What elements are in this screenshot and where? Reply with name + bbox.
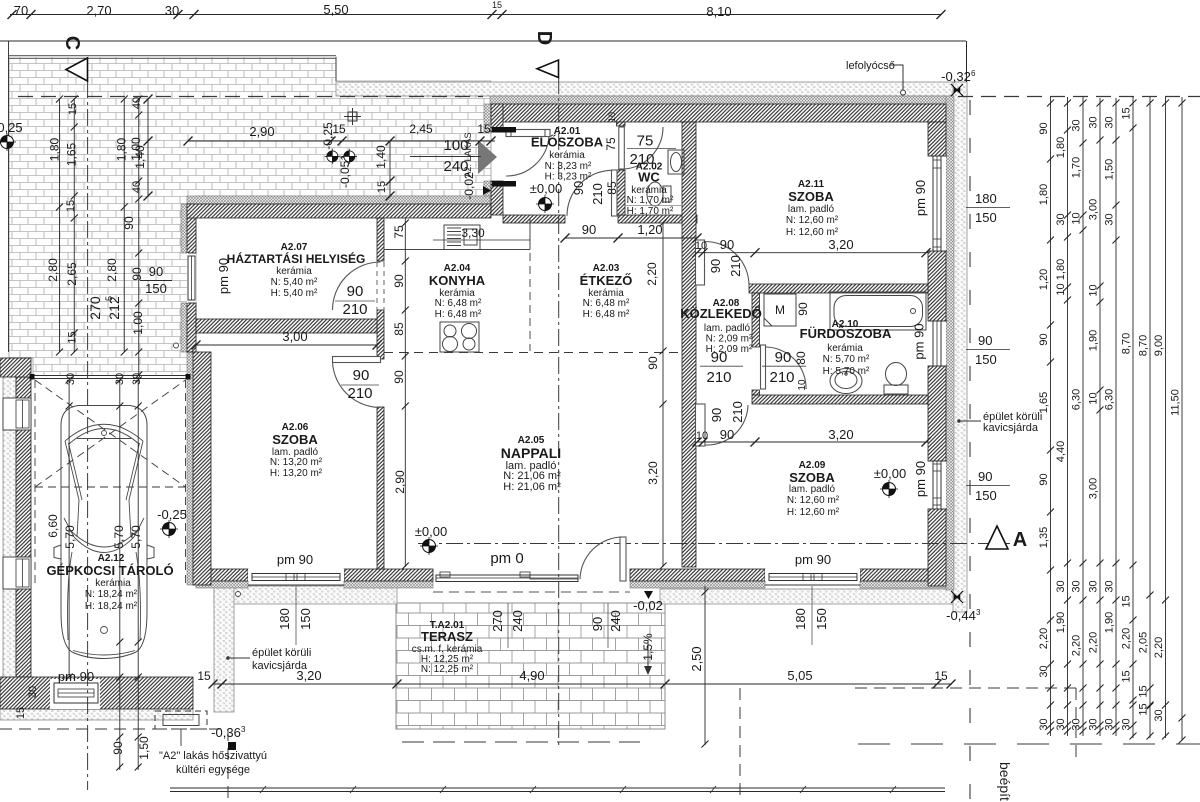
svg-text:30: 30 <box>1104 718 1116 730</box>
svg-text:lam. padló: lam. padló <box>789 484 836 495</box>
vertical 1,40 line right <box>389 141 391 196</box>
insulation hazt top <box>187 196 490 204</box>
svg-text:30: 30 <box>1153 709 1165 721</box>
insulation south c <box>630 581 765 588</box>
svg-text:1,65: 1,65 <box>65 142 79 166</box>
gravel east band <box>953 82 967 612</box>
car body outline <box>61 406 147 659</box>
bath washbasin <box>830 369 862 394</box>
wall east: bottom block <box>928 509 946 586</box>
svg-text:1,50: 1,50 <box>1104 159 1116 180</box>
svg-text:N: 12,60 m²: N: 12,60 m² <box>786 215 839 226</box>
wc door leaf <box>619 127 625 169</box>
svg-text:N: 12,60 m²: N: 12,60 m² <box>787 495 840 506</box>
car mirrors <box>54 545 154 559</box>
svg-text:1,00: 1,00 <box>129 137 143 161</box>
terrace door arc <box>580 537 623 579</box>
terrace bottom plot dashes <box>402 741 640 743</box>
svg-text:150: 150 <box>298 608 313 630</box>
wall garage west <box>16 377 31 677</box>
svg-text:30: 30 <box>1088 580 1100 592</box>
svg-text:1,40: 1,40 <box>374 145 388 169</box>
svg-text:4,90: 4,90 <box>519 668 544 683</box>
insulation south d <box>860 581 946 588</box>
svg-text:30: 30 <box>1071 718 1083 730</box>
svg-text:90: 90 <box>392 370 406 384</box>
svg-text:H: 12,60 m²: H: 12,60 m² <box>787 507 840 518</box>
car a pillars <box>64 518 144 537</box>
svg-text:pm 90: pm 90 <box>216 258 231 294</box>
room A2.10 furdoszoba labels <box>800 319 892 377</box>
svg-text:H: 6,48 m²: H: 6,48 m² <box>435 309 482 320</box>
kitchen counter <box>384 218 530 250</box>
svg-text:2,65: 2,65 <box>65 262 79 286</box>
svg-text:1,65: 1,65 <box>1038 392 1050 413</box>
window szoba9 east <box>928 461 947 509</box>
szoba9 3,20 dim <box>697 441 928 443</box>
svg-text:H: 18,24 m²: H: 18,24 m² <box>85 601 138 612</box>
svg-text:pm 90: pm 90 <box>277 552 313 567</box>
svg-text:2,50: 2,50 <box>689 646 704 671</box>
wall hazt south (szoba6 north) <box>196 319 377 333</box>
svg-text:270: 270 <box>87 296 103 320</box>
svg-text:2,20: 2,20 <box>1038 628 1050 649</box>
svg-text:75: 75 <box>637 133 654 150</box>
svg-text:15: 15 <box>376 181 388 193</box>
svg-text:90: 90 <box>775 349 792 366</box>
svg-text:1,80: 1,80 <box>48 137 62 161</box>
szoba6 door arc <box>333 363 381 408</box>
wc door arc <box>624 127 663 169</box>
svg-text:3,20: 3,20 <box>828 237 853 252</box>
section line C <box>87 81 89 790</box>
svg-text:4,40: 4,40 <box>1055 441 1067 462</box>
svg-text:±0,00: ±0,00 <box>530 181 562 196</box>
svg-text:A2. LAKÁS: A2. LAKÁS <box>463 132 473 177</box>
furdo door arc <box>766 347 807 389</box>
top dimension line <box>10 14 941 16</box>
wall konyha west (hazt east) upper <box>377 218 384 261</box>
svg-text:0,25: 0,25 <box>0 120 23 135</box>
svg-text:D: D <box>533 31 555 45</box>
room A2.07 haztartasi labels <box>227 242 366 299</box>
svg-text:30: 30 <box>27 686 39 698</box>
room A2.08 kozlekedo labels <box>680 298 762 355</box>
svg-text:2,05: 2,05 <box>1138 632 1150 653</box>
konyha counter dashed edge <box>529 253 531 351</box>
room A2.06 szoba labels <box>270 422 323 479</box>
svg-text:90: 90 <box>711 349 728 366</box>
insulation eloszoba west upper <box>484 104 491 132</box>
svg-text:90: 90 <box>149 264 163 279</box>
svg-text:30: 30 <box>1104 213 1116 225</box>
hazt door leaf dashed <box>377 262 384 310</box>
level -0,44 bottom right <box>951 591 963 603</box>
svg-text:2,45: 2,45 <box>409 122 433 136</box>
svg-text:85: 85 <box>605 181 619 195</box>
szoba6 window 180/150 <box>295 586 297 645</box>
svg-text:kerámia: kerámia <box>276 266 312 277</box>
L9 labels <box>1170 389 1182 416</box>
svg-text:1,80: 1,80 <box>1038 184 1050 205</box>
svg-text:30: 30 <box>1104 116 1116 128</box>
svg-text:A: A <box>1013 529 1027 551</box>
svg-text:pm 90: pm 90 <box>795 552 831 567</box>
svg-text:10: 10 <box>797 379 808 391</box>
svg-text:H: 13,20 m²: H: 13,20 m² <box>270 468 323 479</box>
gravel garage south strip <box>0 709 193 720</box>
wall east: between window1 and bath window <box>928 251 946 321</box>
wc toilet <box>647 182 663 206</box>
terrace door leaf <box>620 537 626 581</box>
right plot boundary vertical (short solid) <box>966 41 968 82</box>
svg-text:80: 80 <box>794 351 808 365</box>
szoba11 door arc <box>705 242 749 286</box>
svg-text:±0,00: ±0,00 <box>415 524 447 539</box>
svg-text:270: 270 <box>490 610 505 632</box>
gravel north band <box>336 82 967 96</box>
wall hazt+konyha top <box>187 204 491 218</box>
right chain ticks <box>1047 100 1186 744</box>
svg-text:210: 210 <box>706 369 731 386</box>
window hazt west <box>188 253 196 303</box>
svg-text:90: 90 <box>122 216 136 230</box>
svg-text:90: 90 <box>978 333 992 348</box>
etkezo-nappali vertical chain x663 <box>662 223 664 567</box>
wall hazt west upper <box>187 204 196 253</box>
svg-text:2,80: 2,80 <box>46 258 60 282</box>
eloszoba south door arc <box>567 170 612 216</box>
svg-text:2,70: 2,70 <box>86 3 111 18</box>
svg-text:-0,02: -0,02 <box>633 598 663 613</box>
svg-text:lam. padló: lam. padló <box>788 204 835 215</box>
window szoba9 south <box>765 574 860 586</box>
svg-text:3: 3 <box>241 725 246 734</box>
svg-text:150: 150 <box>814 608 829 630</box>
szoba11 3,20 dim <box>697 252 928 254</box>
svg-text:N: 5,70 m²: N: 5,70 m² <box>823 354 870 365</box>
svg-text:-0,25: -0,25 <box>157 507 187 522</box>
svg-text:-0,36: -0,36 <box>211 725 241 740</box>
svg-text:90: 90 <box>347 283 364 300</box>
svg-text:2,90: 2,90 <box>249 124 274 139</box>
wall south block a <box>196 569 248 581</box>
szoba9 window 180/150 <box>811 586 813 645</box>
svg-text:8,70: 8,70 <box>1138 335 1150 356</box>
bathtub <box>830 292 926 330</box>
svg-text:H: 21,06 m²: H: 21,06 m² <box>503 481 561 493</box>
svg-text:180: 180 <box>793 608 808 630</box>
insulation east <box>946 96 954 590</box>
car roof sides <box>77 500 131 537</box>
wall eloszoba west upper <box>491 104 503 132</box>
window furdo east <box>928 321 947 366</box>
szoba9 door arc <box>705 405 748 445</box>
gravel south-west L band vertical <box>214 586 234 712</box>
szoba11 door leaf <box>696 240 705 285</box>
wall garage south <box>0 677 193 709</box>
svg-text:2,90: 2,90 <box>393 470 407 494</box>
svg-text:TERASZ: TERASZ <box>421 629 473 644</box>
L3 labels <box>1071 119 1083 730</box>
room A2.04 konyha labels <box>429 263 486 320</box>
svg-text:90: 90 <box>1038 473 1050 485</box>
konyha-szoba6 vertical chain x405 <box>404 218 406 567</box>
wall south block b <box>344 569 433 581</box>
svg-text:5,70: 5,70 <box>129 525 143 549</box>
svg-text:kavicsjárda: kavicsjárda <box>983 422 1039 434</box>
sliding glass nappali south <box>436 572 578 582</box>
svg-text:6: 6 <box>971 69 976 78</box>
wall garage east / szoba6 west <box>193 352 211 585</box>
svg-text:N: 6,48 m²: N: 6,48 m² <box>435 298 482 309</box>
svg-text:lam. padló: lam. padló <box>704 323 751 334</box>
marker D triangle <box>537 60 559 78</box>
eaves dashed right of building <box>958 96 1200 98</box>
bath toilet <box>884 385 908 394</box>
svg-text:6,60: 6,60 <box>46 514 60 538</box>
svg-text:210: 210 <box>730 401 745 423</box>
svg-text:3,30: 3,30 <box>461 226 485 240</box>
svg-text:90: 90 <box>571 181 586 195</box>
window garage south <box>54 683 98 703</box>
konyha/nappali dashed separator <box>384 352 679 354</box>
room interiors to repaint white over any overlap <box>50 156 946 709</box>
svg-text:150: 150 <box>975 352 997 367</box>
svg-text:kültéri egysége: kültéri egysége <box>176 764 250 776</box>
svg-text:épület körüli: épület körüli <box>252 647 311 659</box>
insulation south a <box>196 581 248 588</box>
second horizontal line <box>0 40 966 42</box>
svg-text:kerámia: kerámia <box>827 343 863 354</box>
svg-text:N: 5,40 m²: N: 5,40 m² <box>271 277 318 288</box>
svg-text:210: 210 <box>347 385 372 402</box>
svg-text:90: 90 <box>111 741 125 755</box>
svg-text:40: 40 <box>131 97 143 109</box>
wall east: top block <box>928 122 946 156</box>
svg-text:8,70: 8,70 <box>1121 333 1133 354</box>
entrance arrow triangle <box>478 140 497 174</box>
svg-text:GÉPKOCSI TÁROLÓ: GÉPKOCSI TÁROLÓ <box>46 563 173 578</box>
garage door track right <box>185 380 187 585</box>
svg-text:SZOBA: SZOBA <box>788 189 834 204</box>
svg-text:1,90: 1,90 <box>1055 612 1067 633</box>
svg-text:15: 15 <box>1121 107 1133 119</box>
car windshield <box>74 537 134 553</box>
wall south block c <box>630 569 765 581</box>
svg-text:M: M <box>775 303 785 317</box>
svg-text:15: 15 <box>15 707 27 719</box>
svg-text:1,20: 1,20 <box>637 222 662 237</box>
svg-text:N: 18,24 m²: N: 18,24 m² <box>85 589 138 600</box>
svg-text:SZOBA: SZOBA <box>272 432 318 447</box>
svg-text:180: 180 <box>975 191 997 206</box>
wall eloszoba west lower <box>491 181 503 215</box>
svg-text:N: 1,70 m²: N: 1,70 m² <box>627 195 674 206</box>
wall garage nw corner <box>0 358 31 377</box>
svg-text:ÉTKEZŐ: ÉTKEZŐ <box>580 273 633 288</box>
bottom boundary dashed horizontal <box>858 743 1200 745</box>
vertical 1,40 line left <box>147 99 149 196</box>
svg-text:5,70: 5,70 <box>112 525 126 549</box>
terrace top dashed line <box>433 591 630 593</box>
svg-text:1,80: 1,80 <box>1055 137 1067 158</box>
svg-text:kerámia: kerámia <box>549 150 585 161</box>
left boundary vertical <box>8 41 10 352</box>
svg-text:FÜRDŐSZOBA: FÜRDŐSZOBA <box>800 326 892 341</box>
svg-text:90: 90 <box>978 469 992 484</box>
svg-text:pm 90: pm 90 <box>912 323 927 359</box>
svg-text:90: 90 <box>590 617 605 631</box>
svg-text:10: 10 <box>607 112 617 122</box>
insulation garage east <box>187 352 193 585</box>
svg-text:15: 15 <box>1121 595 1133 607</box>
svg-text:9,00: 9,00 <box>1153 335 1165 356</box>
svg-text:210: 210 <box>769 369 794 386</box>
L6 labels <box>1121 107 1133 730</box>
wall east: between bath window and szoba9 window <box>928 366 946 461</box>
svg-text:N: 6,48 m²: N: 6,48 m² <box>583 298 630 309</box>
svg-text:90: 90 <box>720 237 734 252</box>
drain circle at gravel corner <box>236 592 241 597</box>
L7 labels <box>1138 335 1150 716</box>
wall konyha west (hazt east) mid <box>377 310 384 359</box>
svg-text:30: 30 <box>1071 119 1083 131</box>
svg-text:75: 75 <box>604 137 618 151</box>
wall szoba11 south partition <box>749 284 928 293</box>
L8 labels <box>1153 335 1165 722</box>
svg-text:30: 30 <box>1121 718 1133 730</box>
wall big divider (wc/szoba11, etkezo/kozlekedo, nappali/szoba9) <box>682 122 696 567</box>
svg-text:90: 90 <box>1038 333 1050 345</box>
svg-text:75: 75 <box>392 225 406 239</box>
svg-text:3: 3 <box>976 608 981 617</box>
svg-text:SZOBA: SZOBA <box>789 470 835 485</box>
wall nappali west (szoba6 east) lower <box>377 407 384 569</box>
svg-text:3,20: 3,20 <box>646 461 660 485</box>
svg-text:30: 30 <box>1038 665 1050 677</box>
svg-text:2,20: 2,20 <box>1121 628 1133 649</box>
svg-text:1,50: 1,50 <box>137 736 151 760</box>
svg-text:210: 210 <box>342 301 367 318</box>
svg-text:1,20: 1,20 <box>1038 269 1050 290</box>
washing machine <box>764 294 796 326</box>
insulation north <box>490 96 946 104</box>
wall wc west jamb <box>617 122 626 126</box>
svg-text:H: 5,70 m²: H: 5,70 m² <box>823 366 870 377</box>
entrance door leaf <box>506 130 550 137</box>
svg-text:1,35: 1,35 <box>1038 527 1050 548</box>
svg-text:H: 1,70 m²: H: 1,70 m² <box>627 206 674 217</box>
gravel garage west strip <box>3 358 16 677</box>
etkezo top 90/1,20 dim <box>565 237 697 239</box>
svg-text:2,80: 2,80 <box>105 258 119 282</box>
bottom left dashed under garage <box>0 728 228 730</box>
2,50 vertical dim right of terrace <box>704 586 706 745</box>
svg-text:30: 30 <box>1055 718 1067 730</box>
window garage west lower <box>3 557 31 589</box>
svg-text:10: 10 <box>1088 284 1100 296</box>
svg-text:1,00: 1,00 <box>131 311 145 335</box>
bottom right dashed horizontal <box>855 687 1076 689</box>
svg-text:KÖZLEKEDŐ: KÖZLEKEDŐ <box>680 306 762 321</box>
svg-text:15: 15 <box>1138 685 1150 697</box>
szoba6 door leaf <box>333 357 381 363</box>
marker A triangle <box>986 526 1008 549</box>
car rear window <box>65 424 143 441</box>
svg-text:90: 90 <box>720 427 734 442</box>
svg-text:1,90: 1,90 <box>1104 612 1116 633</box>
wall wc west <box>617 170 626 215</box>
svg-text:150: 150 <box>145 281 167 296</box>
gravel south-west L band horizontal <box>214 586 397 604</box>
svg-text:6,30: 6,30 <box>1104 389 1116 410</box>
svg-text:90: 90 <box>796 302 810 316</box>
svg-text:90: 90 <box>646 356 660 370</box>
svg-text:15: 15 <box>197 669 211 683</box>
wall kozlekedo/furdo partition stub <box>752 390 760 395</box>
svg-text:5: 5 <box>104 296 114 301</box>
room A2.11 szoba labels <box>786 179 839 238</box>
right boundary dashed vertical <box>969 100 971 802</box>
svg-text:15: 15 <box>1121 670 1133 682</box>
court right edge step <box>335 57 337 81</box>
wall hazt west lower <box>187 303 196 352</box>
terrace labels <box>412 620 483 675</box>
wc washbasin <box>668 150 684 174</box>
svg-text:3,20: 3,20 <box>828 427 853 442</box>
eaves dashed line top <box>18 96 483 98</box>
window garage west upper <box>3 398 31 430</box>
svg-text:30: 30 <box>131 373 143 385</box>
svg-text:pm 90: pm 90 <box>913 461 928 497</box>
svg-text:210: 210 <box>629 151 654 168</box>
svg-text:pm 0: pm 0 <box>490 550 523 567</box>
kitchen sink unit <box>444 225 480 250</box>
svg-text:2,20: 2,20 <box>1071 635 1083 656</box>
svg-text:5,50: 5,50 <box>323 2 348 17</box>
terrace tiles <box>396 603 665 729</box>
insulation hazt west upper <box>181 204 187 253</box>
hazt door arc <box>333 262 381 310</box>
bottom right dashed vertical 2 <box>1075 688 1077 757</box>
window szoba11 east <box>928 156 947 251</box>
svg-text:240: 240 <box>608 610 623 632</box>
svg-text:15: 15 <box>477 122 491 136</box>
L4 labels <box>1088 116 1100 730</box>
svg-text:1,90: 1,90 <box>1088 330 1100 351</box>
svg-text:30: 30 <box>1088 718 1100 730</box>
svg-text:WC: WC <box>638 170 660 185</box>
room A2.03 etkezo labels <box>580 263 633 320</box>
marker C triangle <box>66 58 88 81</box>
svg-text:90: 90 <box>392 274 406 288</box>
wall eloszoba south <box>503 215 565 223</box>
svg-text:pm 90: pm 90 <box>913 180 928 216</box>
svg-text:N: 3,23 m²: N: 3,23 m² <box>545 161 592 172</box>
wall kozlekedo/furdo partition upper <box>752 293 760 347</box>
svg-text:15: 15 <box>65 200 77 212</box>
gravel south-east band <box>660 589 953 604</box>
hazt 3,00 dim <box>196 344 377 346</box>
svg-text:90: 90 <box>582 222 596 237</box>
L1 labels <box>1038 122 1050 730</box>
svg-text:1,70: 1,70 <box>1071 157 1083 178</box>
szoba9 door leaf <box>696 404 706 446</box>
svg-text:240: 240 <box>510 610 525 632</box>
svg-text:30: 30 <box>65 373 77 385</box>
bottom right dashed vertical 1 <box>739 688 741 800</box>
